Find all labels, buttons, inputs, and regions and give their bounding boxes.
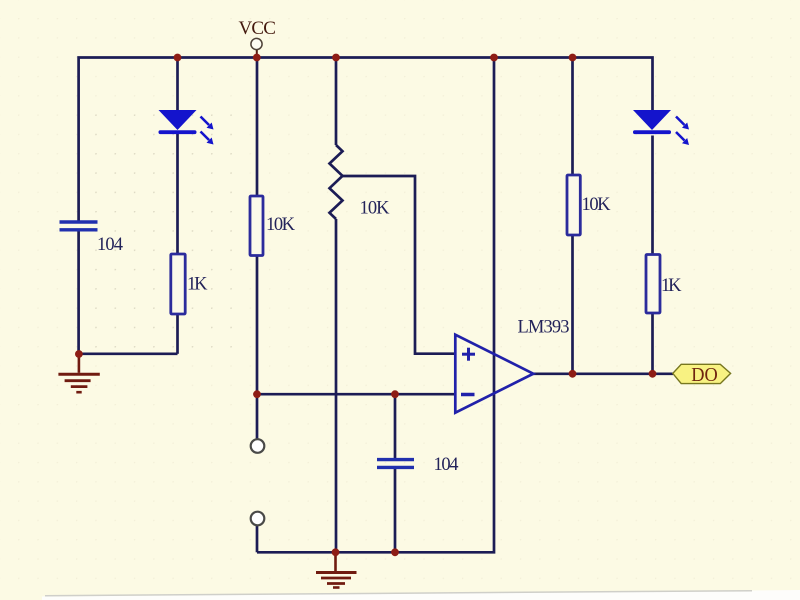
svg-text:1K: 1K [187, 275, 208, 295]
svg-text:10K: 10K [266, 215, 296, 235]
svg-text:LM393: LM393 [518, 318, 570, 338]
svg-text:10K: 10K [582, 195, 612, 215]
svg-text:10K: 10K [360, 199, 391, 219]
svg-text:104: 104 [97, 235, 123, 255]
svg-text:1K: 1K [661, 276, 682, 296]
svg-text:104: 104 [434, 455, 459, 475]
svg-text:DO: DO [691, 365, 718, 386]
svg-text:VCC: VCC [239, 18, 276, 39]
